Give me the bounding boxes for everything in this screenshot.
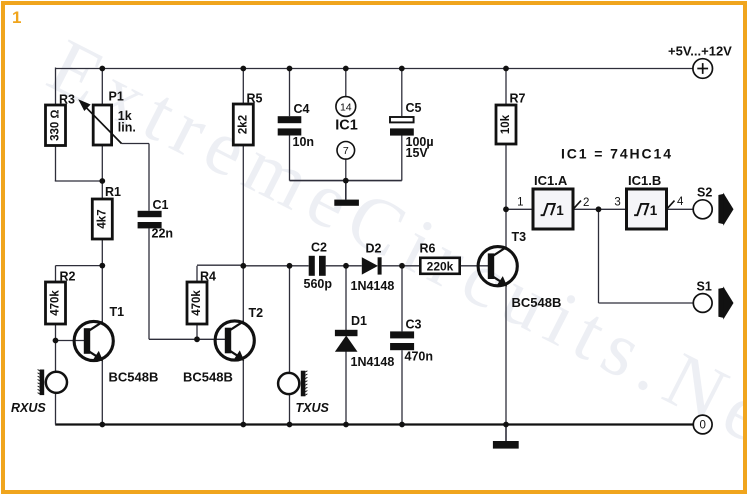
svg-text:15V: 15V	[406, 146, 429, 160]
svg-text:560p: 560p	[304, 277, 333, 291]
wire T3 emitter	[505, 286, 507, 425]
label T2	[249, 306, 264, 320]
label R4	[200, 270, 216, 284]
svg-text:IC1: IC1	[335, 118, 358, 134]
IC1 label centre	[335, 118, 358, 134]
svg-text:2k2: 2k2	[237, 115, 249, 134]
label C5	[406, 101, 434, 160]
wire ground stem bottom	[505, 425, 507, 442]
wire RXUS to ground rail	[55, 394, 57, 425]
resistor R4	[187, 282, 207, 324]
svg-text:T3: T3	[512, 230, 527, 244]
svg-text:IC1 = 74HC14: IC1 = 74HC14	[561, 146, 673, 162]
wire bottom ground rail	[55, 423, 693, 425]
diode D1	[335, 330, 358, 352]
svg-text:3: 3	[614, 197, 620, 209]
wire IC1 pin7 bottom	[345, 159, 347, 180]
label IC1.B	[628, 173, 661, 188]
output arrow S1	[718, 286, 733, 319]
label R2	[60, 270, 76, 284]
capacitor C2	[309, 256, 326, 276]
svg-text:2: 2	[583, 197, 589, 209]
label T2 type	[183, 370, 233, 385]
wire P1 top	[101, 69, 103, 106]
svg-text:T2: T2	[249, 306, 264, 320]
wire P1 wiper to C1	[122, 144, 150, 211]
wire top supply rail	[56, 68, 694, 70]
label RXUS	[11, 401, 46, 415]
wire T2 emitter	[242, 360, 244, 425]
svg-text:D2: D2	[366, 242, 382, 256]
wire T1 emitter	[101, 361, 103, 425]
wire P1 bottom to R1	[101, 145, 103, 199]
IC1 pin 7	[337, 142, 355, 160]
svg-text:1: 1	[517, 197, 523, 209]
svg-text:S1: S1	[697, 280, 712, 294]
svg-text:C1: C1	[153, 198, 169, 212]
label S1	[697, 280, 712, 294]
transducer TXUS	[278, 371, 307, 397]
svg-text:C4: C4	[294, 102, 310, 116]
capacitor C1	[138, 211, 162, 229]
svg-text:+5V...+12V: +5V...+12V	[668, 44, 732, 59]
label pin 3	[614, 197, 620, 209]
label C4	[293, 102, 315, 149]
wire R6 to T3 base	[460, 265, 489, 267]
label R1	[105, 185, 121, 199]
svg-text:330 Ω: 330 Ω	[50, 109, 62, 140]
svg-text:R4: R4	[200, 270, 216, 284]
label supply voltage	[668, 44, 732, 59]
label T1 type	[109, 370, 159, 385]
terminal S1	[693, 294, 712, 313]
wire R2 bottom to T1 base node	[56, 324, 85, 371]
svg-text:14: 14	[340, 101, 352, 113]
svg-text:IC1.B: IC1.B	[628, 173, 661, 188]
wire IC1.B output to S2	[667, 208, 694, 210]
wire C3 column	[401, 266, 403, 425]
svg-text:R2: R2	[60, 270, 76, 284]
resistor R3	[46, 105, 66, 146]
output arrow S2	[718, 193, 733, 226]
svg-text:R5: R5	[247, 92, 263, 106]
label pin 2	[583, 197, 589, 209]
svg-text:470k: 470k	[191, 290, 203, 316]
ground bottom	[493, 441, 519, 449]
label IC1 = 74HC14	[561, 146, 673, 162]
label R5	[247, 92, 263, 106]
wire D2 to R6	[382, 265, 421, 267]
label D2	[351, 242, 395, 294]
label T3 type	[512, 295, 562, 310]
svg-text:22n: 22n	[152, 227, 174, 241]
label IC1.A	[534, 173, 568, 188]
svg-text:IC1.A: IC1.A	[534, 173, 568, 188]
svg-text:S2: S2	[697, 186, 712, 200]
potentiometer P1	[78, 99, 121, 145]
capacitor C5 electrolytic	[390, 117, 414, 136]
svg-text:TXUS: TXUS	[296, 401, 330, 415]
svg-text:1N4148: 1N4148	[351, 279, 395, 293]
wire C4 column	[289, 69, 291, 181]
diode D2	[362, 257, 382, 274]
capacitor C3	[390, 331, 414, 350]
label C2	[304, 241, 333, 292]
wire R3 bottom to node	[55, 146, 103, 182]
label TXUS	[296, 401, 330, 415]
wire R5 bottom / T2 collector	[242, 145, 244, 322]
svg-text:lin.: lin.	[118, 121, 136, 135]
svg-text:P1: P1	[109, 90, 124, 104]
svg-text:R1: R1	[105, 185, 121, 199]
label T1	[110, 305, 125, 319]
resistor R7	[496, 105, 516, 144]
label R3	[59, 93, 75, 107]
svg-text:1: 1	[556, 203, 564, 218]
wire decoupling ground bus	[290, 180, 402, 182]
wire R1 bottom / T1 collector	[101, 239, 103, 322]
transistor T1	[74, 321, 113, 361]
label C1	[152, 198, 174, 241]
resistor R6	[420, 258, 459, 274]
terminal 0	[693, 415, 712, 434]
label C3	[405, 318, 434, 364]
svg-text:R3: R3	[59, 93, 75, 107]
svg-text:4k7: 4k7	[96, 209, 108, 228]
transistor T2	[215, 321, 254, 361]
svg-text:1N4148: 1N4148	[351, 355, 395, 369]
svg-text:10n: 10n	[293, 135, 315, 149]
schmitt inverter IC1.B	[627, 189, 675, 229]
svg-text:BC548B: BC548B	[109, 370, 159, 385]
svg-text:10k: 10k	[500, 114, 512, 134]
wire signal line to C2	[243, 265, 308, 267]
label pin 1	[517, 197, 523, 209]
capacitor C4	[278, 116, 302, 135]
svg-text:BC548B: BC548B	[512, 295, 562, 310]
svg-text:C5: C5	[406, 101, 422, 115]
svg-text:4: 4	[677, 196, 684, 208]
resistor R2	[46, 282, 66, 324]
wire R4 top	[197, 265, 243, 282]
wire D1 column	[345, 266, 347, 425]
wire R3 top	[55, 68, 57, 106]
wire TXUS column	[289, 266, 291, 425]
wire node A to R2 top	[56, 266, 103, 282]
svg-text:C3: C3	[406, 318, 422, 332]
svg-text:T1: T1	[110, 305, 125, 319]
schmitt inverter IC1.A	[533, 189, 581, 229]
wire C5 column	[401, 69, 403, 181]
label D1	[351, 314, 395, 369]
label T3	[512, 230, 527, 244]
terminal +supply	[693, 59, 713, 79]
svg-text:D1: D1	[351, 314, 367, 328]
wire R7 top	[505, 69, 507, 106]
wire C2 to D2	[326, 265, 362, 267]
transducer RXUS	[38, 370, 67, 396]
wire R7 bottom / T3 collector	[505, 144, 507, 247]
svg-text:470n: 470n	[405, 350, 434, 364]
terminal S2	[693, 200, 712, 219]
svg-text:1: 1	[650, 203, 658, 218]
wire R5 top	[242, 69, 244, 105]
svg-text:R6: R6	[420, 242, 436, 256]
transistor T3	[478, 247, 517, 287]
wire C1 to T2 base line	[149, 228, 225, 339]
svg-text:RXUS: RXUS	[11, 401, 46, 415]
svg-text:7: 7	[343, 145, 349, 157]
label R6	[420, 242, 436, 256]
wire IC1.A output to IC1.B	[573, 208, 627, 210]
label S2	[697, 186, 712, 200]
label R7	[510, 92, 526, 106]
resistor R1	[92, 199, 112, 239]
ground under IC1	[334, 200, 359, 206]
svg-text:220k: 220k	[427, 259, 454, 273]
wire IC1 pin14 top	[345, 69, 347, 97]
wire T3 to IC1.A input	[506, 208, 533, 210]
wire to S1	[599, 209, 694, 303]
label pin 4	[677, 196, 684, 208]
svg-text:470k: 470k	[50, 290, 62, 316]
wire ground stem under IC1	[345, 181, 347, 200]
svg-text:BC548B: BC548B	[183, 370, 233, 385]
label P1	[109, 90, 136, 135]
wire R4 bottom	[196, 324, 198, 339]
svg-text:0: 0	[699, 420, 705, 432]
IC1 pin 14	[336, 97, 356, 117]
svg-text:R7: R7	[510, 92, 526, 106]
svg-text:C2: C2	[311, 241, 327, 255]
resistor R5	[233, 104, 253, 145]
